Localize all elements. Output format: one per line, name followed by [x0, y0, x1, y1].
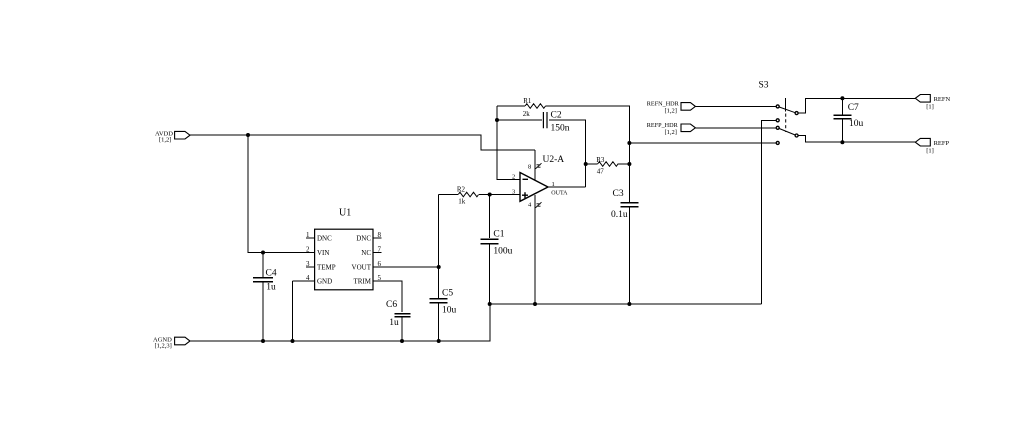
svg-text:REFN: REFN	[934, 96, 951, 103]
svg-text:R1: R1	[523, 97, 532, 105]
svg-text:DNC: DNC	[317, 235, 332, 243]
svg-text:47: 47	[597, 167, 605, 175]
svg-text:5: 5	[378, 274, 382, 282]
svg-text:C3: C3	[613, 189, 624, 199]
svg-text:TEMP: TEMP	[317, 264, 336, 272]
svg-text:[1,2]: [1,2]	[665, 129, 677, 136]
svg-text:1k: 1k	[458, 198, 466, 206]
svg-text:GND: GND	[317, 278, 332, 286]
svg-text:6: 6	[378, 260, 382, 268]
svg-text:4: 4	[528, 202, 532, 209]
svg-text:8: 8	[378, 231, 382, 239]
svg-text:0.1u: 0.1u	[611, 210, 628, 220]
svg-text:2: 2	[306, 246, 310, 254]
svg-text:VIN: VIN	[317, 249, 329, 257]
svg-text:2k: 2k	[523, 110, 531, 118]
svg-text:OUTA: OUTA	[551, 191, 568, 197]
svg-text:DNC: DNC	[356, 235, 371, 243]
svg-text:REFN_HDR: REFN_HDR	[647, 101, 680, 108]
svg-text:U1: U1	[339, 208, 351, 219]
svg-text:C6: C6	[386, 300, 397, 310]
svg-text:C4: C4	[266, 269, 277, 279]
svg-text:R3: R3	[596, 156, 605, 164]
svg-text:10u: 10u	[442, 306, 457, 316]
svg-text:7: 7	[378, 246, 382, 254]
svg-text:C5: C5	[442, 289, 453, 299]
svg-text:U2-A: U2-A	[543, 155, 565, 165]
svg-text:4: 4	[306, 274, 310, 282]
svg-text:150n: 150n	[551, 124, 570, 134]
svg-text:2: 2	[512, 174, 515, 181]
svg-text:VOUT: VOUT	[352, 264, 372, 272]
svg-text:100u: 100u	[493, 247, 512, 257]
svg-text:[1,2]: [1,2]	[159, 137, 171, 144]
svg-text:S3: S3	[759, 81, 769, 91]
svg-text:REFP_HDR: REFP_HDR	[647, 122, 679, 129]
svg-text:R2: R2	[457, 185, 466, 193]
svg-text:[1,2]: [1,2]	[665, 108, 677, 115]
svg-text:NC: NC	[361, 249, 371, 257]
svg-text:C2: C2	[551, 111, 562, 121]
svg-text:[1]: [1]	[926, 148, 934, 155]
svg-text:[1,2,3]: [1,2,3]	[155, 343, 172, 350]
svg-text:10u: 10u	[849, 119, 864, 129]
svg-text:C7: C7	[848, 103, 859, 113]
svg-text:3: 3	[306, 260, 310, 268]
svg-text:REFP: REFP	[934, 140, 950, 147]
svg-text:3: 3	[512, 189, 515, 196]
svg-text:1: 1	[552, 181, 555, 188]
svg-text:1u: 1u	[266, 283, 276, 293]
svg-text:[1]: [1]	[926, 104, 934, 111]
svg-text:TRIM: TRIM	[354, 278, 372, 286]
svg-text:8: 8	[528, 164, 531, 171]
svg-text:C1: C1	[493, 230, 504, 240]
svg-text:1u: 1u	[389, 318, 399, 328]
svg-text:1: 1	[306, 231, 310, 239]
